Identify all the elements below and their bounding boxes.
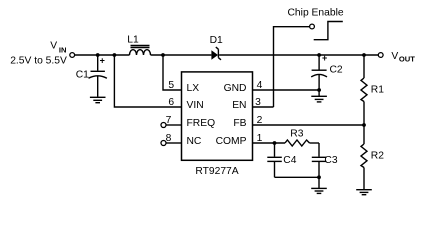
ground under R2 bbox=[356, 190, 372, 195]
wire EN to chip-enable terminal bbox=[274, 27, 310, 107]
wire VIN branch to pin 6 bbox=[114, 55, 181, 107]
wire FB to divider bbox=[253, 124, 365, 126]
svg-text:R2: R2 bbox=[371, 151, 384, 162]
junction C2 tap bbox=[317, 53, 321, 57]
svg-text:Chip Enable: Chip Enable bbox=[288, 8, 344, 19]
ground under C3 bbox=[311, 177, 327, 193]
svg-text:2.5V to 5.5V: 2.5V to 5.5V bbox=[10, 55, 67, 66]
wire L1 to D1 bbox=[151, 54, 212, 56]
IC U1 RT9277A bbox=[182, 72, 253, 177]
svg-text:6: 6 bbox=[168, 97, 174, 108]
svg-text:V: V bbox=[50, 40, 57, 51]
node VIN label bbox=[10, 40, 67, 66]
terminal VIN bbox=[70, 53, 75, 58]
svg-text:OUT: OUT bbox=[399, 55, 415, 64]
svg-text:C2: C2 bbox=[330, 64, 343, 75]
resistor R1 bbox=[361, 55, 384, 125]
svg-text:V: V bbox=[391, 51, 398, 62]
junction R1 tap bbox=[362, 53, 366, 57]
wire COMP stub bbox=[253, 142, 286, 144]
capacitor C3 bbox=[312, 143, 338, 177]
inductor L1 bbox=[127, 35, 150, 55]
wire EN pin stub bbox=[253, 106, 274, 108]
node VOUT label bbox=[391, 51, 415, 64]
ground under C2 bbox=[311, 90, 327, 102]
ground under C1 bbox=[90, 97, 106, 102]
svg-text:L1: L1 bbox=[127, 35, 139, 46]
junction C1 tap bbox=[96, 53, 100, 57]
svg-text:+: + bbox=[322, 53, 327, 63]
capacitor C1 bbox=[76, 55, 107, 97]
junction VIN branch bbox=[113, 53, 117, 57]
junction COMP bbox=[273, 141, 277, 145]
svg-text:D1: D1 bbox=[210, 35, 223, 46]
terminal pin 8 NC bbox=[161, 141, 166, 146]
diode D1 bbox=[210, 35, 223, 60]
svg-text:R1: R1 bbox=[371, 85, 384, 96]
svg-text:NC: NC bbox=[187, 136, 202, 147]
wire input to L1 bbox=[75, 54, 130, 56]
svg-text:1: 1 bbox=[257, 133, 263, 144]
capacitor C2 bbox=[311, 53, 343, 90]
junction C2 ground bbox=[317, 88, 321, 92]
resistor R2 bbox=[361, 125, 384, 190]
svg-text:3: 3 bbox=[255, 97, 261, 108]
svg-text:VIN: VIN bbox=[187, 100, 204, 111]
terminal pin 7 FREQ bbox=[161, 123, 166, 128]
svg-text:RT9277A: RT9277A bbox=[195, 166, 238, 177]
junction LX tap bbox=[161, 53, 165, 57]
svg-text:EN: EN bbox=[232, 100, 246, 111]
svg-text:C4: C4 bbox=[283, 155, 296, 166]
wire pin 8 stub bbox=[166, 142, 182, 144]
svg-text:5: 5 bbox=[168, 80, 174, 91]
terminal VOUT bbox=[378, 53, 383, 58]
terminal Chip Enable bbox=[310, 24, 315, 29]
wire LX branch to pin 5 bbox=[163, 55, 182, 90]
svg-text:C1: C1 bbox=[76, 69, 89, 80]
junction compensation ground bbox=[317, 175, 321, 179]
svg-text:R3: R3 bbox=[290, 129, 303, 140]
svg-text:C3: C3 bbox=[324, 155, 337, 166]
svg-text:4: 4 bbox=[257, 80, 263, 91]
wire compensation bottom bbox=[275, 176, 320, 178]
enable step waveform bbox=[314, 22, 343, 40]
resistor R3 bbox=[285, 129, 319, 146]
svg-text:GND: GND bbox=[224, 83, 247, 94]
svg-text:COMP: COMP bbox=[216, 136, 247, 147]
svg-text:FREQ: FREQ bbox=[187, 118, 216, 129]
wire D1 cathode to VOUT bbox=[219, 54, 378, 56]
svg-text:+: + bbox=[100, 55, 105, 65]
svg-text:LX: LX bbox=[187, 83, 200, 94]
wire pin 7 stub bbox=[166, 124, 182, 126]
svg-text:2: 2 bbox=[257, 115, 263, 126]
wire GND pin to C2 bbox=[253, 89, 320, 91]
svg-text:FB: FB bbox=[233, 118, 246, 129]
capacitor C4 bbox=[267, 143, 296, 177]
svg-text:IN: IN bbox=[59, 45, 67, 54]
junction FB divider bbox=[362, 123, 366, 127]
